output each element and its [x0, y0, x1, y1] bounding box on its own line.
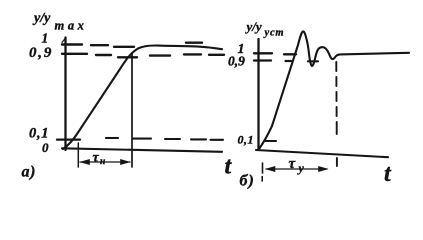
left plot dashed level line 0.9	[62, 54, 224, 58]
svg-text:0,9: 0,9	[29, 45, 53, 61]
svg-text:y/y: y/y	[32, 11, 51, 26]
left plot dashed level line 1.0	[62, 43, 202, 47]
left plot y-axis top hook	[62, 38, 66, 43]
right plot arrow left boundary tick	[261, 163, 263, 181]
svg-text:0,9: 0,9	[228, 54, 245, 69]
right plot 0.1 level tick	[265, 140, 276, 142]
right plot x-axis	[256, 150, 388, 157]
svg-text:н: н	[100, 157, 105, 167]
right plot mid dashes level 1.0	[284, 53, 296, 55]
right plot vertical dashed settling-time line	[335, 62, 338, 166]
svg-text:max: max	[55, 19, 88, 33]
right plot mid dashes level 0.9	[286, 60, 319, 62]
left plot y-axis	[64, 38, 66, 151]
svg-text:1: 1	[42, 31, 49, 46]
svg-text:б): б)	[240, 173, 255, 190]
left plot response curve	[63, 45, 222, 149]
svg-text:уст: уст	[263, 28, 285, 39]
svg-text:y/y: y/y	[245, 19, 262, 34]
svg-text:τ: τ	[93, 151, 100, 166]
left plot 0.1 level solid tick	[57, 138, 80, 140]
left plot x-axis	[62, 148, 222, 152]
svg-text:0,1: 0,1	[238, 133, 255, 147]
right plot oscillatory response curve	[259, 31, 409, 149]
right plot level tick 1.0	[254, 52, 272, 54]
right plot tau_y dimension arrow	[266, 168, 327, 170]
left plot dashed level line 0.1	[106, 138, 223, 140]
svg-text:а): а)	[22, 164, 37, 181]
svg-text:у: у	[297, 161, 305, 175]
svg-text:0: 0	[42, 140, 49, 155]
left plot vertical marker at 0.1 crossing	[77, 143, 79, 167]
left plot tau_n dimension arrow	[80, 161, 130, 163]
right plot level tick 0.9	[254, 59, 271, 61]
left plot vertical marker at 0.9 crossing	[131, 55, 133, 168]
right plot y-axis	[257, 39, 259, 150]
